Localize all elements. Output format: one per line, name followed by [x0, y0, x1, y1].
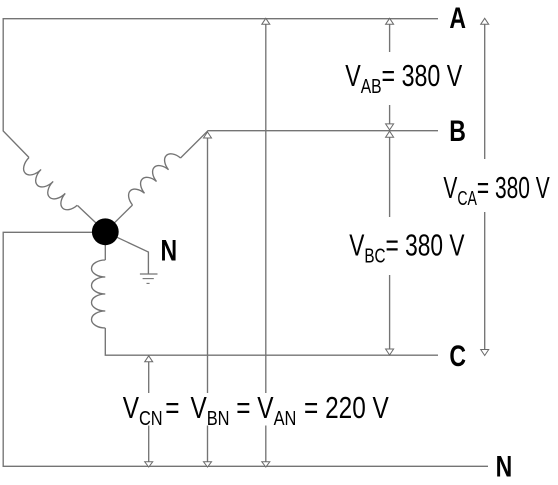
- inductor winding A (upper-left coil): [19, 158, 77, 216]
- wire phase A top line: [3, 19, 438, 158]
- wire node to ground: [105, 232, 148, 274]
- wire coil A to node: [78, 206, 106, 232]
- inductor winding C (vertical coil): [92, 260, 106, 328]
- voltage arrow V_AN shaft: [265, 24, 267, 462]
- node N junction dot: [92, 218, 119, 245]
- wire coil B to phase B line: [181, 131, 439, 158]
- arrowhead V_BN up at B: [204, 132, 212, 138]
- svg-text:VCN = VBN = VAN = 220 V: VCN = VBN = VAN = 220 V: [123, 390, 390, 429]
- arrowhead V_AN up at A: [262, 18, 270, 24]
- arrowhead V_BC up at B: [386, 131, 394, 137]
- svg-text:C: C: [449, 339, 466, 372]
- wire node to neutral bus: [3, 232, 488, 466]
- voltage arrow V_BC shaft: [389, 136, 391, 350]
- white text backgrounds: [120, 52, 553, 426]
- svg-text:N: N: [161, 234, 178, 267]
- arrowhead V_AB down at B: [386, 124, 394, 130]
- arrowhead V_CN up at C: [145, 356, 153, 362]
- inductor winding B (upper-right coil): [124, 150, 180, 205]
- ground symbol: [140, 273, 158, 275]
- arrowhead V_BN down at N: [204, 462, 212, 467]
- arrowhead V_AN down at N: [262, 462, 270, 467]
- wire coil C to phase C line: [105, 328, 438, 355]
- svg-text:A: A: [449, 1, 466, 34]
- voltage arrow V_CA shaft: [484, 24, 486, 351]
- svg-text:N: N: [496, 450, 513, 483]
- wire node to coil B: [105, 205, 132, 232]
- svg-text:B: B: [449, 114, 466, 147]
- wire node down to coil C: [104, 232, 106, 260]
- arrowhead V_CA up at A: [481, 18, 489, 24]
- arrowheads (open triangles): [145, 18, 489, 467]
- voltage arrow V_AB shaft: [389, 24, 391, 126]
- arrowhead V_CN down at N: [145, 462, 153, 467]
- arrowhead V_AB up at A: [386, 18, 394, 24]
- voltage arrow V_CN shaft: [148, 362, 150, 463]
- arrowhead V_CA down at C: [481, 350, 489, 356]
- arrowhead V_BC down at C: [386, 349, 394, 355]
- voltage arrow V_BN shaft: [207, 137, 209, 462]
